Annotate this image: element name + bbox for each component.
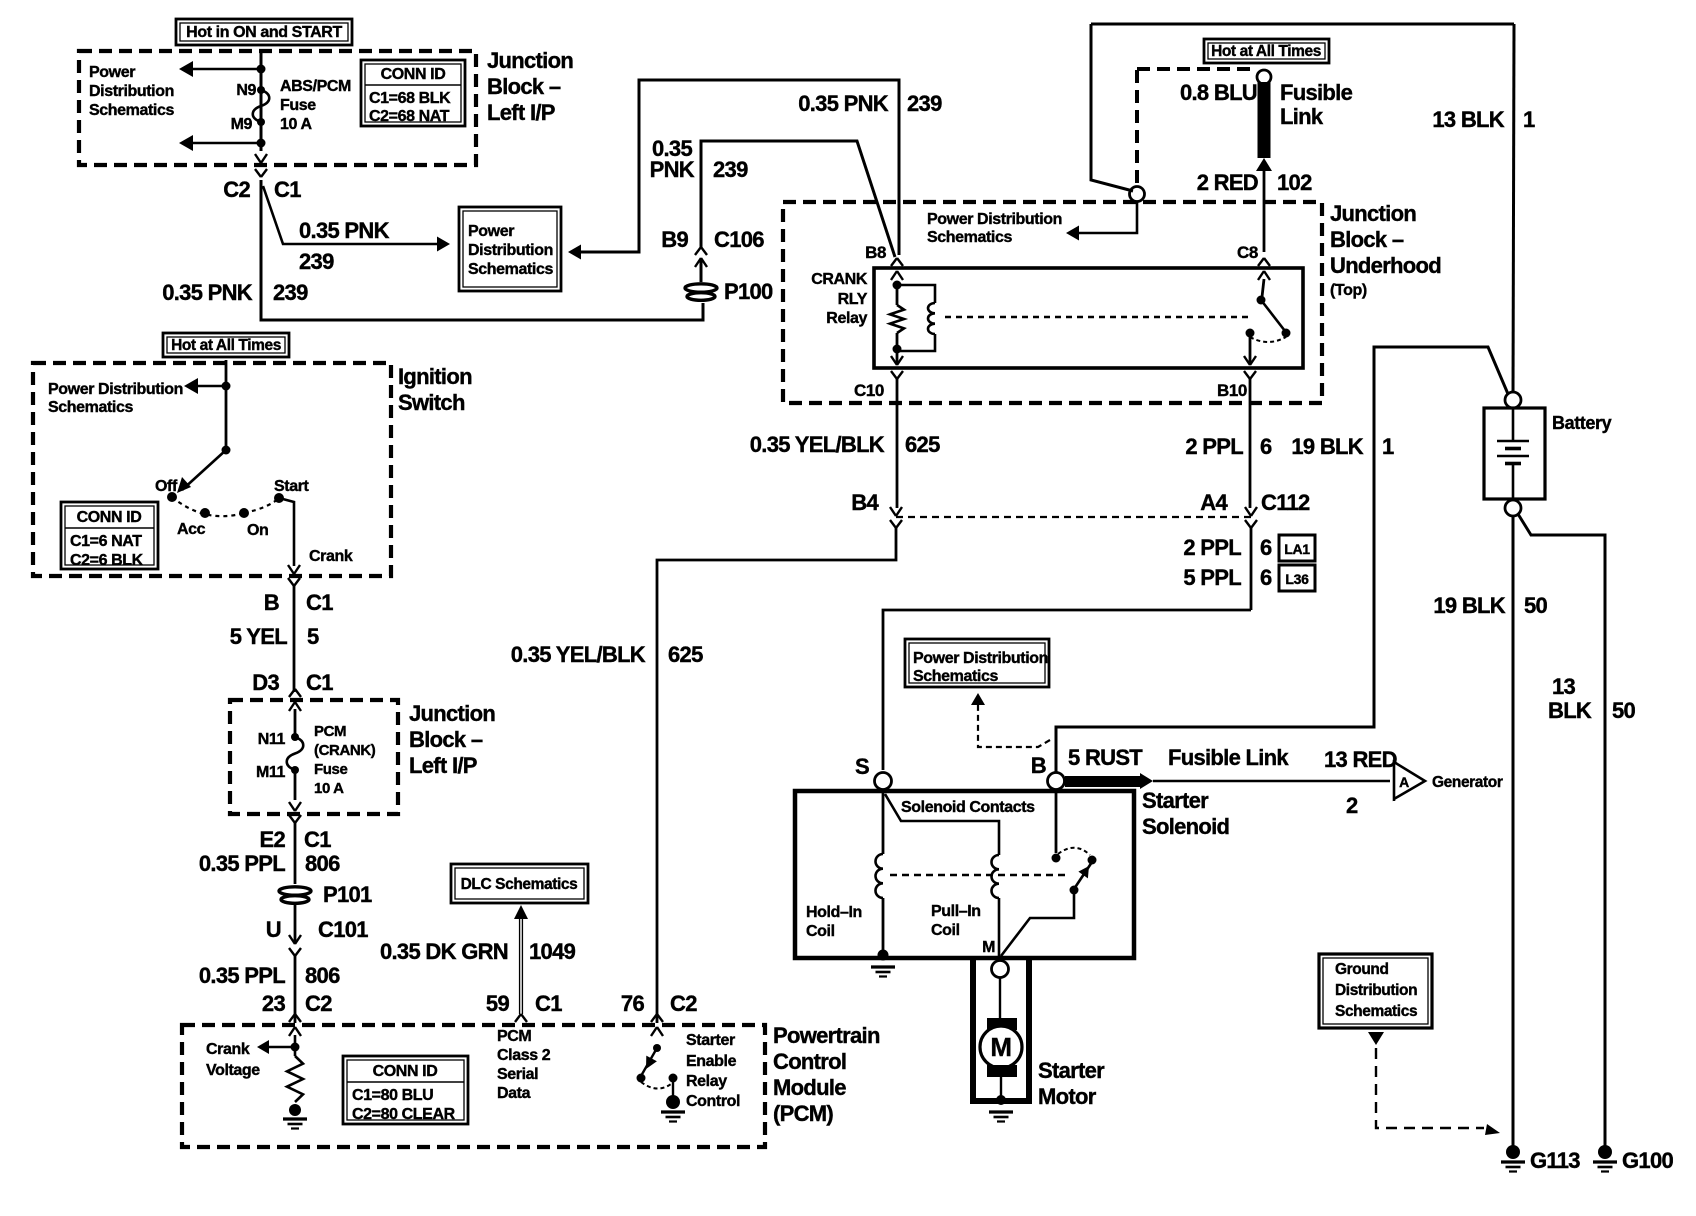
wire: P101 to C101 <box>294 904 297 942</box>
connector B9/C106 inline <box>695 258 707 267</box>
svg-text:Switch: Switch <box>398 390 465 415</box>
svg-text:PNK: PNK <box>650 157 695 182</box>
connector A4 <box>1245 507 1257 516</box>
svg-text:Left I/P: Left I/P <box>487 100 555 125</box>
svg-text:Power Distribution: Power Distribution <box>48 381 183 398</box>
svg-text:6: 6 <box>1260 535 1272 560</box>
label box: Hot at All Times (right) <box>1204 39 1329 63</box>
terminal M <box>992 961 1009 978</box>
wire: to solenoid S terminal <box>883 610 1251 770</box>
svg-text:19 BLK: 19 BLK <box>1291 434 1363 459</box>
wire: B terminal to battery <box>1056 347 1508 772</box>
svg-text:0.35 YEL/BLK: 0.35 YEL/BLK <box>750 432 885 457</box>
svg-text:239: 239 <box>273 280 308 305</box>
pull-in coil <box>991 855 999 898</box>
svg-text:B8: B8 <box>865 243 886 262</box>
svg-text:Coil: Coil <box>931 922 960 939</box>
svg-text:Class 2: Class 2 <box>497 1047 551 1064</box>
svg-text:On: On <box>247 522 268 539</box>
svg-text:Fuse: Fuse <box>280 97 316 114</box>
svg-text:ABS/PCM: ABS/PCM <box>280 78 351 95</box>
wire: M to motor <box>999 977 1001 1020</box>
svg-text:0.35 PPL: 0.35 PPL <box>199 963 285 988</box>
connector B10 below relay <box>1244 371 1256 379</box>
svg-text:625: 625 <box>668 642 703 667</box>
svg-text:Hold–In: Hold–In <box>806 904 862 921</box>
svg-text:Schematics: Schematics <box>927 229 1012 246</box>
svg-text:C1: C1 <box>274 177 301 202</box>
svg-text:Relay: Relay <box>686 1073 727 1090</box>
ground (PCM internal) <box>289 1104 301 1116</box>
wire: ignition feed vertical <box>225 360 228 450</box>
svg-text:Schematics: Schematics <box>89 102 174 119</box>
CONN ID box (PCM) <box>343 1056 468 1124</box>
wire: relay contact to B10 exit <box>1249 337 1252 364</box>
connector E2/C1 at JB2 exit <box>289 802 301 811</box>
svg-text:PCM: PCM <box>497 1028 531 1045</box>
svg-text:1: 1 <box>1382 434 1394 459</box>
svg-text:0.35 PNK: 0.35 PNK <box>162 280 253 305</box>
svg-text:10 A: 10 A <box>280 116 312 133</box>
starter motor case <box>973 958 1029 1101</box>
connector C2/C1 at box exit <box>255 154 267 163</box>
switch travel arc (dashed) <box>172 497 244 516</box>
svg-text:Junction: Junction <box>487 48 573 73</box>
svg-text:Coil: Coil <box>806 923 835 940</box>
svg-text:N11: N11 <box>258 731 286 748</box>
svg-text:Module: Module <box>773 1075 846 1100</box>
ignition switch dashed box <box>33 363 391 576</box>
starter motor armature <box>980 1026 1022 1068</box>
wire: 0.35 PPL 806 (lower) <box>294 956 297 1023</box>
svg-text:806: 806 <box>305 851 340 876</box>
wire: 2 RED 102 <box>1263 166 1266 252</box>
ground (starter motor) <box>989 1110 1013 1113</box>
svg-text:Fusible Link: Fusible Link <box>1168 745 1289 770</box>
connector C8 at relay entry <box>1258 258 1270 266</box>
svg-text:0.35 YEL/BLK: 0.35 YEL/BLK <box>511 642 646 667</box>
svg-text:Junction: Junction <box>409 701 495 726</box>
svg-text:CONN ID: CONN ID <box>77 509 142 526</box>
switch contact On <box>239 508 249 518</box>
svg-text:C101: C101 <box>318 917 368 942</box>
svg-text:1049: 1049 <box>529 939 576 964</box>
svg-text:Control: Control <box>773 1049 846 1074</box>
svg-text:Powertrain: Powertrain <box>773 1023 880 1048</box>
svg-text:Pull–In: Pull–In <box>931 903 981 920</box>
svg-text:Block –: Block – <box>409 727 483 752</box>
connector 23/C2 at PCM entry <box>289 1014 301 1022</box>
ground G100 <box>1598 1145 1612 1159</box>
battery negative terminal <box>1505 500 1521 516</box>
switch contact Start <box>274 493 284 503</box>
svg-text:M11: M11 <box>256 764 286 781</box>
node: dot on ignition feed <box>222 382 231 391</box>
svg-text:Control: Control <box>686 1093 740 1110</box>
svg-text:Enable: Enable <box>686 1053 737 1070</box>
connector 76/C2 at PCM entry <box>651 1014 663 1022</box>
solenoid moving contact arm <box>1074 862 1092 889</box>
wire: branch arrow left (ignition) <box>196 385 226 388</box>
svg-text:Starter: Starter <box>686 1032 735 1049</box>
connector 59/C1 at PCM edge <box>515 1014 527 1022</box>
battery positive terminal <box>1505 392 1521 408</box>
wire: JB-UH terminal riser <box>1091 24 1133 191</box>
engine tag LA1 <box>1279 535 1315 561</box>
svg-text:Distribution: Distribution <box>89 83 174 100</box>
svg-text:Block –: Block – <box>1330 227 1404 252</box>
wire: crank output <box>279 498 294 566</box>
wire: branch arrow lower-left <box>192 142 261 145</box>
svg-text:625: 625 <box>905 432 940 457</box>
svg-text:PCM: PCM <box>314 723 346 740</box>
svg-text:DLC Schematics: DLC Schematics <box>461 876 578 893</box>
svg-text:(PCM): (PCM) <box>773 1101 833 1126</box>
svg-text:Relay: Relay <box>826 310 867 327</box>
wire: fuse feed (JB2) <box>294 709 297 735</box>
engine tag L36 <box>1279 565 1315 591</box>
wire: 13 BLK 1 battery feed down <box>1513 24 1514 396</box>
switch contact Acc <box>200 508 210 518</box>
wire: S to hold-in coil <box>882 790 885 854</box>
svg-text:6: 6 <box>1260 565 1272 590</box>
arrow: crank voltage <box>268 1046 295 1048</box>
svg-text:(CRANK): (CRANK) <box>314 742 376 759</box>
fuse PCM (CRANK) 10 A (N11-M11) <box>291 733 299 741</box>
node: junction dot upper <box>257 65 266 74</box>
svg-text:Battery: Battery <box>1552 413 1612 433</box>
relay switch travel arc (dashed) <box>1250 337 1286 342</box>
wire: battery feed top <box>1091 23 1514 26</box>
wire: 0.35 PNK to Power Distribution (top loop) <box>576 80 899 255</box>
relay box (CRANK RLY) <box>874 268 1303 368</box>
svg-text:59: 59 <box>486 991 510 1016</box>
svg-text:10 A: 10 A <box>314 780 344 797</box>
svg-text:102: 102 <box>1277 170 1312 195</box>
svg-text:Left I/P: Left I/P <box>409 753 477 778</box>
svg-text:D3: D3 <box>252 670 279 695</box>
wire: fuse out (JB2) <box>294 770 297 800</box>
splice P101 <box>279 887 311 895</box>
svg-text:(Top): (Top) <box>1330 282 1367 299</box>
ground G113 <box>1506 1145 1520 1159</box>
inline connector C112 (dashed line) <box>896 516 1251 518</box>
arrow: Power Distribution Schematics (JB-UH) <box>1078 201 1137 233</box>
svg-text:76: 76 <box>621 991 645 1016</box>
label box: Hot in ON and START <box>176 19 352 45</box>
svg-text:239: 239 <box>713 157 748 182</box>
wire: 0.35 YEL/BLK 625 (B4 to PCM 76) <box>657 527 896 1023</box>
node: junction dot lower <box>257 139 266 148</box>
resistor: crank voltage divider <box>287 1056 303 1102</box>
svg-text:Solenoid: Solenoid <box>1142 814 1229 839</box>
solenoid contact (B side) <box>1052 854 1061 863</box>
svg-text:C1: C1 <box>306 590 333 615</box>
dashed path to G113 <box>1376 1048 1484 1128</box>
fusible link 0.8 BLU <box>1258 82 1271 158</box>
svg-text:6: 6 <box>1260 434 1272 459</box>
svg-text:Junction: Junction <box>1330 201 1416 226</box>
starter enable relay contact <box>669 1074 678 1083</box>
svg-text:M: M <box>982 939 995 956</box>
svg-text:5 PPL: 5 PPL <box>1183 565 1241 590</box>
svg-text:A: A <box>1399 774 1409 790</box>
box: Power Distribution Schematics (left) <box>459 207 561 291</box>
svg-text:RLY: RLY <box>838 291 868 308</box>
svg-text:Ignition: Ignition <box>398 364 472 389</box>
connector B/C1 at ignition exit <box>288 565 300 574</box>
solenoid contact (moving) <box>1088 856 1097 865</box>
label box: Hot at All Times (left) <box>163 333 289 357</box>
svg-text:BLK: BLK <box>1548 698 1592 723</box>
svg-text:2 PPL: 2 PPL <box>1185 434 1243 459</box>
connector U/C101 inline <box>289 935 301 944</box>
wire: pull-in coil to M <box>998 898 1001 956</box>
junction block - underhood notch (dashed) <box>1135 70 1139 186</box>
connector D3/C1 at JB2 entry <box>289 689 301 697</box>
svg-text:Voltage: Voltage <box>206 1062 260 1079</box>
generator symbol <box>1394 760 1425 801</box>
relay switch common from C8 <box>1262 279 1264 297</box>
svg-text:Crank: Crank <box>206 1041 250 1058</box>
box: Ground Distribution Schematics <box>1319 954 1432 1028</box>
svg-text:239: 239 <box>299 249 334 274</box>
svg-text:L36: L36 <box>1285 571 1309 587</box>
connector B8 at relay entry <box>891 258 903 266</box>
wire: branch arrow upper-left <box>192 68 261 71</box>
wire: 0.35 PPL 806 (upper) <box>294 822 297 884</box>
svg-text:50: 50 <box>1612 698 1636 723</box>
wire: 19 BLK 50 to G113 <box>1512 516 1515 1147</box>
svg-text:5 YEL: 5 YEL <box>230 624 287 649</box>
wire: hold-in coil to ground <box>882 898 885 953</box>
svg-text:Block –: Block – <box>487 74 561 99</box>
svg-text:G100: G100 <box>1622 1148 1673 1173</box>
svg-text:Hot at All Times: Hot at All Times <box>171 337 281 354</box>
arrow: ground distribution (down from box) <box>1368 1032 1384 1045</box>
box: DLC Schematics <box>451 864 588 903</box>
svg-text:Hot in ON and START: Hot in ON and START <box>186 24 342 41</box>
svg-text:Fusible: Fusible <box>1280 80 1353 105</box>
svg-text:CRANK: CRANK <box>811 271 868 288</box>
svg-text:N9: N9 <box>236 82 256 99</box>
wire: P100 to C106 <box>700 258 703 282</box>
terminal circle (fusible link top) <box>1257 70 1271 84</box>
svg-text:C112: C112 <box>1261 490 1310 515</box>
svg-text:C2: C2 <box>223 177 250 202</box>
CONN ID box (JB left I/P) <box>361 60 465 126</box>
svg-text:C10: C10 <box>854 381 884 400</box>
wire: relay coil to C10 exit <box>896 349 899 364</box>
svg-text:C1=68 BLK: C1=68 BLK <box>369 90 451 107</box>
svg-text:Hot at All Times: Hot at All Times <box>1211 43 1321 60</box>
ignition switch blade <box>182 450 226 490</box>
svg-text:B4: B4 <box>851 490 879 515</box>
svg-text:Underhood: Underhood <box>1330 253 1441 278</box>
svg-text:Schematics: Schematics <box>468 261 553 278</box>
terminal S <box>875 773 892 790</box>
svg-text:C106: C106 <box>714 227 764 252</box>
svg-text:Distribution: Distribution <box>1335 982 1417 999</box>
motor brush upper <box>987 1018 1017 1030</box>
wire: 13 RED 2 to generator <box>1153 780 1390 783</box>
motor brush lower <box>987 1065 1017 1077</box>
svg-text:Ground: Ground <box>1335 961 1389 978</box>
svg-text:Distribution: Distribution <box>468 242 553 259</box>
relay switch blade <box>1261 300 1285 331</box>
wire: fuse feed vertical (JB left I/P) <box>260 51 263 151</box>
solenoid mechanical link (dashed) <box>890 874 1070 877</box>
svg-text:Power Distribution: Power Distribution <box>927 211 1062 228</box>
svg-text:C1=80 BLU: C1=80 BLU <box>352 1087 433 1104</box>
svg-text:CONN ID: CONN ID <box>373 1063 438 1080</box>
wire: C106 up to relay B8 (0.35 PNK) <box>701 141 895 257</box>
svg-text:Power: Power <box>89 64 135 81</box>
relay coil resistance <box>893 281 902 290</box>
svg-text:23: 23 <box>262 991 286 1016</box>
svg-text:Link: Link <box>1280 104 1324 129</box>
svg-text:C2=6 BLK: C2=6 BLK <box>70 552 144 569</box>
svg-text:C2=68 NAT: C2=68 NAT <box>369 108 450 125</box>
relay switch contact B10 <box>1246 329 1255 338</box>
svg-text:C1=6 NAT: C1=6 NAT <box>70 533 142 550</box>
svg-text:P100: P100 <box>724 279 773 304</box>
svg-text:CONN ID: CONN ID <box>381 66 446 83</box>
svg-text:Off: Off <box>155 478 178 495</box>
svg-text:C8: C8 <box>1237 243 1258 262</box>
svg-text:Start: Start <box>274 478 310 495</box>
svg-text:B: B <box>264 590 279 615</box>
svg-text:A4: A4 <box>1200 490 1228 515</box>
svg-text:Generator: Generator <box>1432 774 1503 791</box>
svg-text:50: 50 <box>1524 593 1548 618</box>
svg-text:19 BLK: 19 BLK <box>1433 593 1505 618</box>
svg-text:C2=80 CLEAR: C2=80 CLEAR <box>352 1106 456 1123</box>
wire: 0.35 PNK 239 main run (down and right to P100) <box>261 180 703 320</box>
svg-text:C1: C1 <box>304 827 331 852</box>
battery cell symbol <box>1512 408 1515 441</box>
hold-in coil <box>876 854 883 898</box>
wire: B to solenoid contact <box>1055 789 1058 853</box>
svg-text:B9: B9 <box>661 227 688 252</box>
splice P100 <box>685 284 717 292</box>
connector C10 below relay <box>891 371 903 379</box>
svg-text:239: 239 <box>907 91 942 116</box>
svg-text:0.35 PNK: 0.35 PNK <box>798 91 889 116</box>
wire: class 2 serial data to DLC (double line) <box>519 918 523 1014</box>
wire: 5 YEL 5 <box>293 585 296 692</box>
svg-text:806: 806 <box>305 963 340 988</box>
svg-text:B10: B10 <box>1217 381 1247 400</box>
svg-text:C2: C2 <box>305 991 332 1016</box>
svg-text:Schematics: Schematics <box>913 668 998 685</box>
svg-text:Schematics: Schematics <box>1335 1003 1417 1020</box>
starter solenoid box <box>795 791 1134 958</box>
svg-text:Fuse: Fuse <box>314 761 347 778</box>
battery box <box>1484 408 1545 499</box>
fuse ABS/PCM 10 A (N9-M9) <box>257 86 265 94</box>
svg-text:Schematics: Schematics <box>48 399 133 416</box>
wire: S to pull-in coil <box>885 794 999 855</box>
wire: 2 PPL/5 PPL (A4 down) <box>1250 527 1253 610</box>
wire: 2 PPL 6 (B10 to A4) <box>1249 379 1252 508</box>
starter enable travel arc (dashed) <box>641 1082 671 1089</box>
junction block - left I/P dashed box <box>79 51 476 165</box>
svg-text:P101: P101 <box>323 882 372 907</box>
svg-text:Power: Power <box>468 223 514 240</box>
svg-text:M: M <box>990 1032 1011 1062</box>
svg-text:C1: C1 <box>535 991 562 1016</box>
svg-text:Serial: Serial <box>497 1066 538 1083</box>
svg-text:Power Distribution: Power Distribution <box>913 650 1048 667</box>
svg-text:Solenoid Contacts: Solenoid Contacts <box>901 799 1035 816</box>
svg-text:5 RUST: 5 RUST <box>1068 745 1143 770</box>
svg-text:Crank: Crank <box>309 548 353 565</box>
junction block - left I/P (2) dashed box <box>230 700 398 814</box>
wire: 0.35 PNK branch to Power Distribution box <box>263 186 437 244</box>
svg-text:C1: C1 <box>306 670 333 695</box>
svg-text:U: U <box>266 917 281 942</box>
PCM dashed box <box>182 1025 765 1147</box>
svg-text:B: B <box>1031 753 1046 778</box>
terminal circle (JB-UH left) <box>1130 187 1145 202</box>
CONN ID box (ignition) <box>61 502 158 569</box>
svg-text:Motor: Motor <box>1038 1084 1097 1109</box>
switch contact Off <box>167 492 177 502</box>
svg-text:0.35 DK GRN: 0.35 DK GRN <box>380 939 508 964</box>
svg-text:1: 1 <box>1523 107 1535 132</box>
dashed arrow to Power Distribution box (middle) <box>978 700 1050 747</box>
wire: crank voltage stub <box>294 1035 297 1056</box>
fusible link 5 RUST <box>1065 776 1141 787</box>
svg-text:0.35 PPL: 0.35 PPL <box>199 851 285 876</box>
svg-text:M9: M9 <box>231 116 253 133</box>
connector B4 <box>890 507 902 516</box>
terminal B <box>1048 773 1065 790</box>
svg-text:Acc: Acc <box>177 521 206 538</box>
relay coil winding loop <box>897 285 935 303</box>
svg-text:2 PPL: 2 PPL <box>1183 535 1241 560</box>
svg-text:2: 2 <box>1346 793 1358 818</box>
svg-text:LA1: LA1 <box>1284 541 1310 557</box>
wire: 13 BLK 50 to G100 <box>1518 514 1605 1147</box>
wire: 0.35 YEL/BLK 625 (C10 to B4) <box>896 379 899 508</box>
svg-text:Data: Data <box>497 1085 531 1102</box>
svg-text:2 RED: 2 RED <box>1197 170 1258 195</box>
node: crank voltage dot <box>291 1043 300 1052</box>
svg-text:5: 5 <box>307 624 319 649</box>
svg-text:0.35 PNK: 0.35 PNK <box>299 218 390 243</box>
svg-text:13: 13 <box>1552 674 1576 699</box>
svg-text:E2: E2 <box>259 827 285 852</box>
ground (starter enable) <box>666 1095 680 1109</box>
solenoid contact travel arc (dashed) <box>1058 848 1090 855</box>
svg-text:13 BLK: 13 BLK <box>1432 107 1504 132</box>
junction block - underhood dashed box <box>783 202 1322 403</box>
svg-text:Starter: Starter <box>1142 788 1209 813</box>
svg-text:G113: G113 <box>1530 1148 1580 1173</box>
ground (hold-in coil) <box>871 965 895 968</box>
svg-text:C2: C2 <box>670 991 697 1016</box>
starter enable relay switch blade <box>653 1044 661 1052</box>
svg-text:0.8 BLU: 0.8 BLU <box>1180 80 1257 105</box>
wire: motor to ground <box>1000 1077 1002 1098</box>
svg-text:13 RED: 13 RED <box>1324 747 1397 772</box>
svg-text:S: S <box>855 754 869 779</box>
svg-text:Starter: Starter <box>1038 1058 1105 1083</box>
box: Power Distribution Schematics (middle) <box>905 639 1049 687</box>
relay mechanical link (dashed) <box>945 316 1249 319</box>
